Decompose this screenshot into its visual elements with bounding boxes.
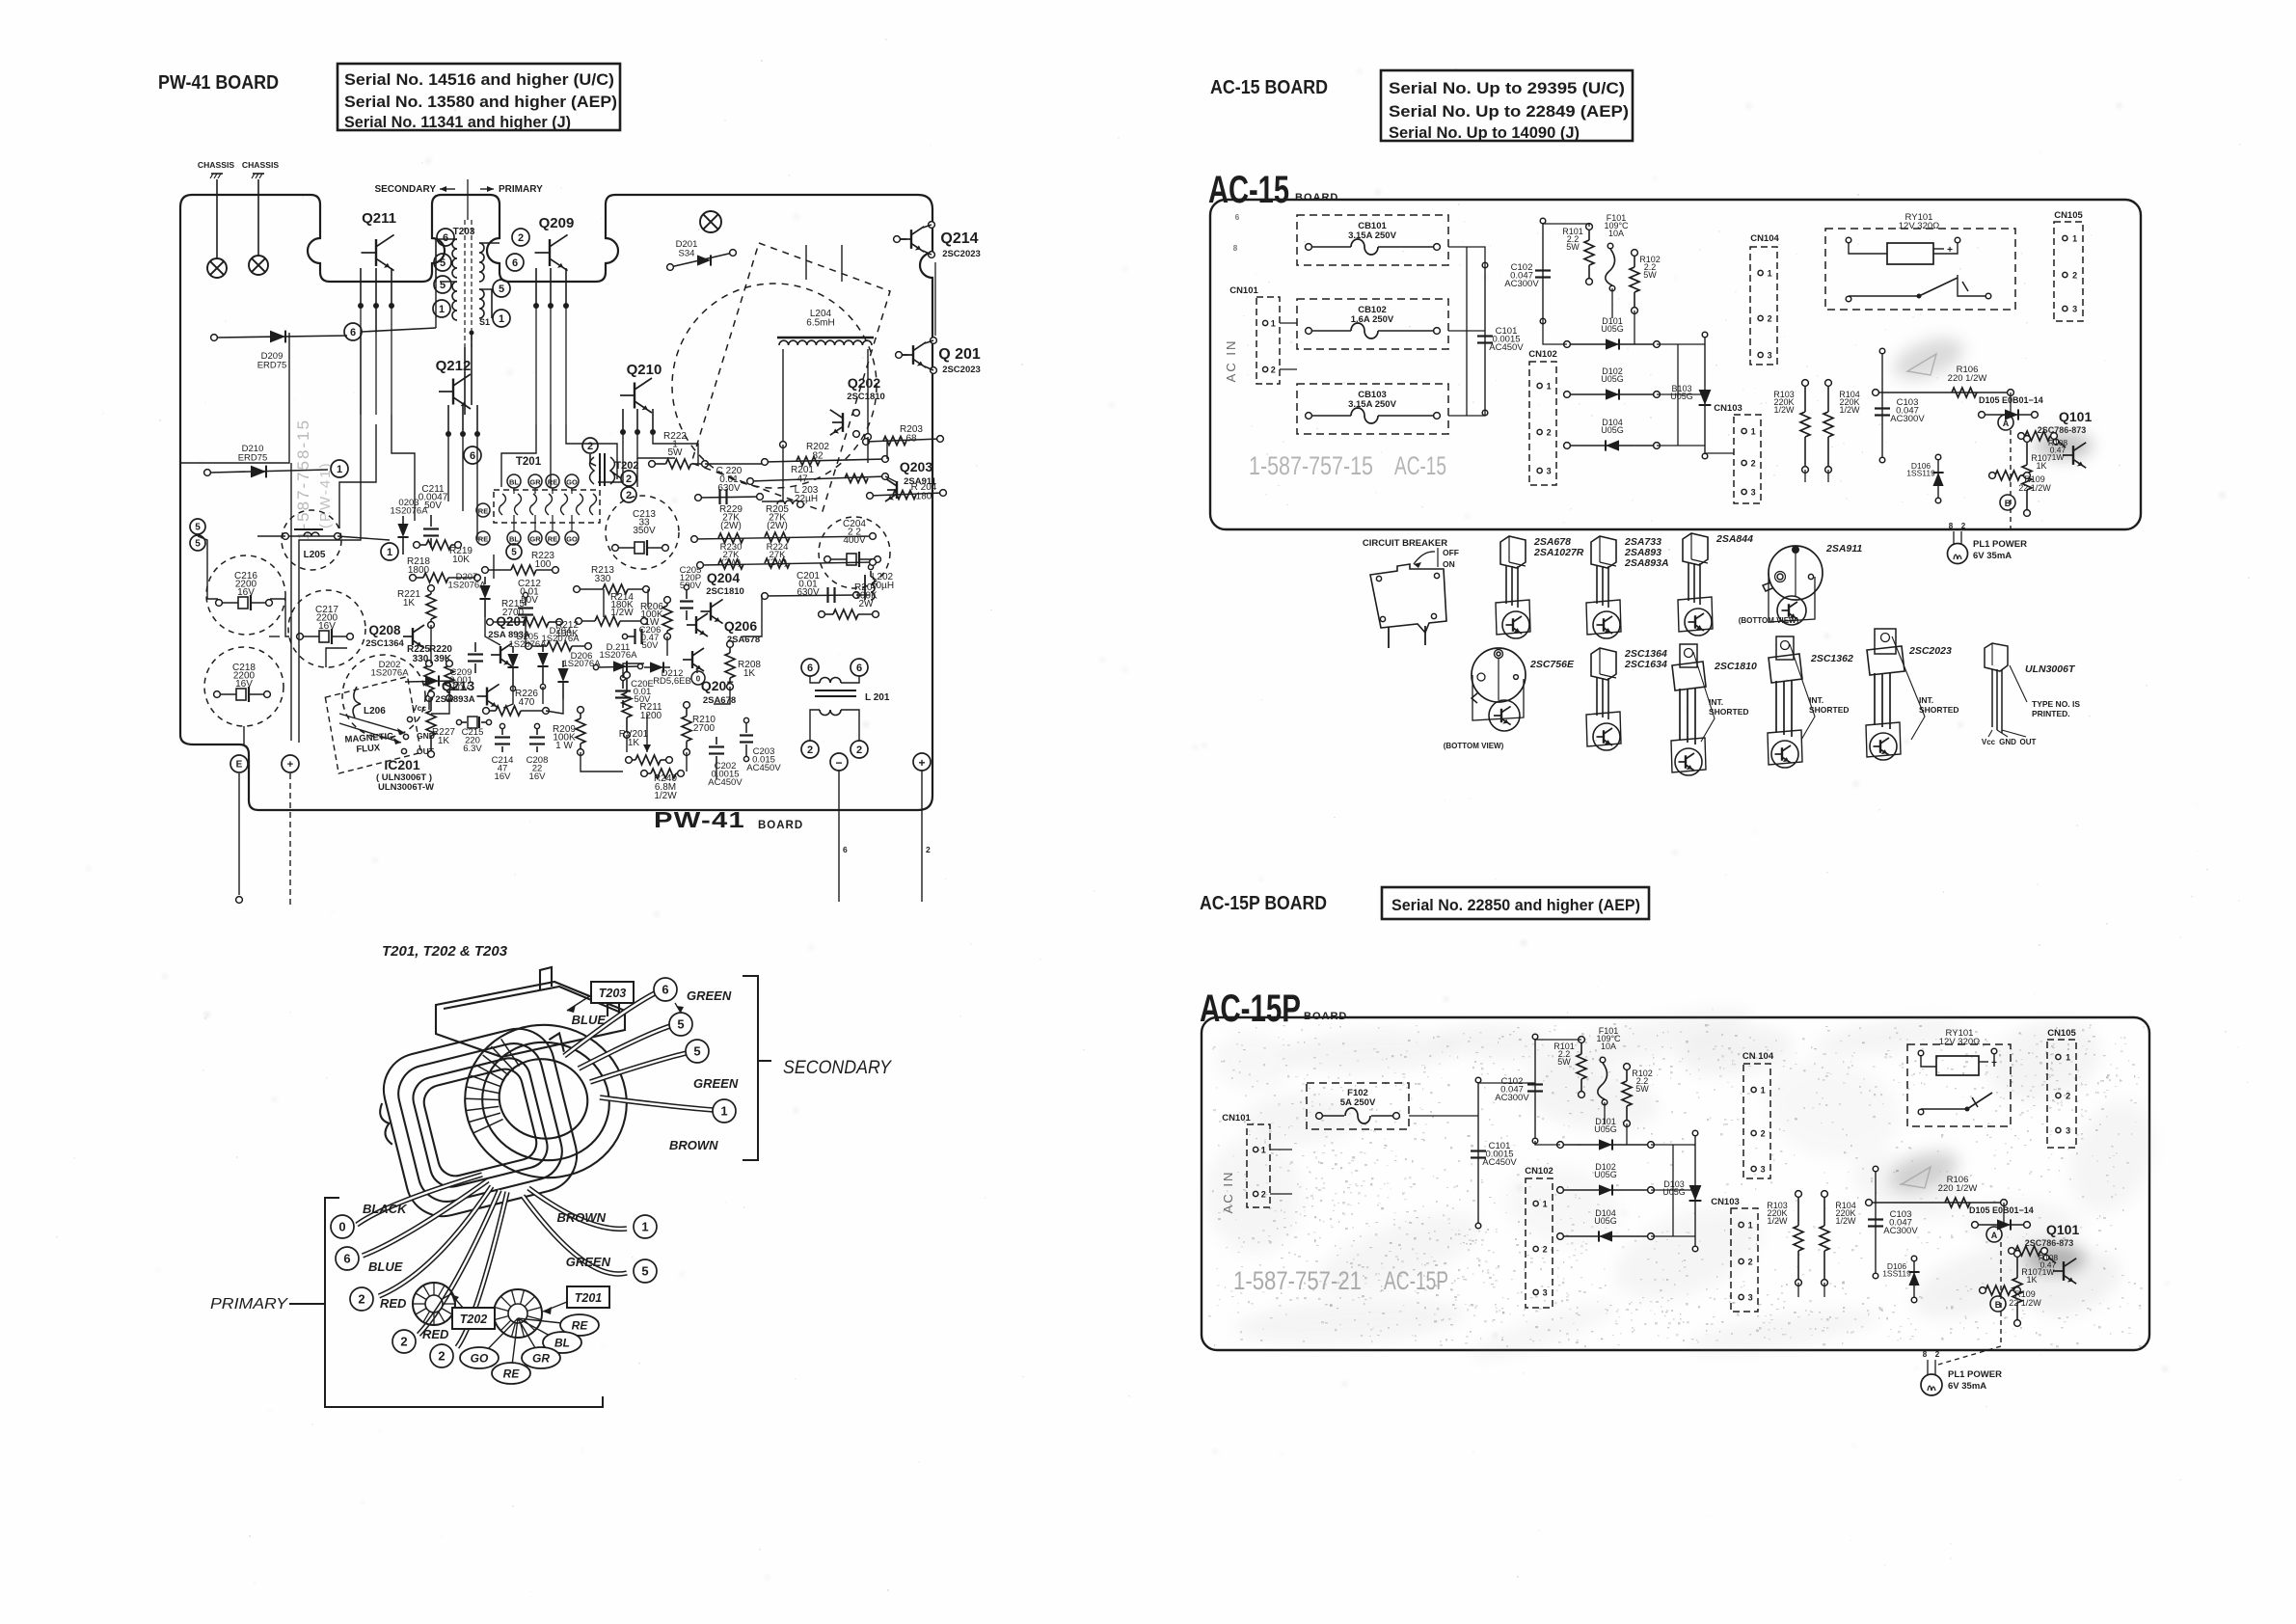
svg-text:22 1/2W: 22 1/2W (2018, 483, 2051, 493)
svg-text:CN101: CN101 (1222, 1113, 1251, 1123)
svg-text:1/2W: 1/2W (1767, 1216, 1788, 1226)
svg-text:CIRCUIT BREAKER: CIRCUIT BREAKER (1363, 538, 1447, 549)
svg-text:2: 2 (1748, 1258, 1753, 1267)
svg-text:1200: 1200 (640, 711, 662, 721)
svg-text:(BOTTOM VIEW): (BOTTOM VIEW) (1444, 742, 1504, 750)
svg-text:1K: 1K (2026, 1275, 2037, 1285)
svg-text:Serial No. 22850 and higher (A: Serial No. 22850 and higher (AEP) (1391, 897, 1640, 914)
svg-text:RE: RE (478, 507, 488, 516)
svg-text:T202: T202 (460, 1313, 488, 1326)
svg-text:1: 1 (1543, 1200, 1548, 1209)
svg-text:2SC756E: 2SC756E (1529, 659, 1575, 670)
svg-text:BOARD: BOARD (1295, 192, 1338, 203)
svg-text:1S2076A: 1S2076A (599, 650, 637, 661)
svg-text:CN103: CN103 (1714, 403, 1742, 414)
svg-text:Q203: Q203 (900, 459, 932, 474)
svg-text:(BOTTOM VIEW): (BOTTOM VIEW) (1739, 616, 1799, 625)
svg-text:GR: GR (532, 1352, 550, 1366)
svg-text:1: 1 (2072, 234, 2077, 244)
svg-text:PRIMARY: PRIMARY (499, 184, 543, 195)
svg-text:1 W: 1 W (555, 741, 573, 751)
svg-text:2: 2 (2066, 1092, 2070, 1101)
svg-text:12V 320Ω: 12V 320Ω (1899, 221, 1940, 231)
svg-text:AC450V: AC450V (1489, 342, 1524, 353)
svg-text:RD5,6EB: RD5,6EB (653, 676, 691, 687)
svg-text:1: 1 (720, 1104, 727, 1119)
svg-text:Vcc: Vcc (1982, 738, 1996, 746)
svg-text:CN105: CN105 (2047, 1028, 2076, 1039)
svg-text:AC IN: AC IN (1224, 339, 1238, 383)
svg-text:6: 6 (343, 1252, 350, 1266)
svg-text:CHASSIS: CHASSIS (198, 160, 234, 170)
svg-text:A: A (1991, 1231, 1998, 1240)
svg-text:6: 6 (843, 845, 848, 854)
svg-text:SECONDARY: SECONDARY (374, 184, 436, 195)
svg-text:OUT: OUT (2020, 738, 2037, 746)
svg-text:6: 6 (662, 983, 668, 997)
svg-text:ULN3006T-W: ULN3006T-W (378, 782, 434, 793)
svg-text:U05G: U05G (1601, 425, 1624, 435)
svg-text:2: 2 (518, 232, 524, 244)
svg-text:100: 100 (535, 559, 552, 570)
svg-text:2SA844: 2SA844 (1715, 533, 1753, 545)
svg-text:GO: GO (566, 535, 578, 544)
svg-text:SHORTED: SHORTED (1709, 707, 1749, 717)
svg-text:BL: BL (509, 478, 519, 487)
svg-text:T201: T201 (516, 456, 542, 468)
svg-text:A: A (2003, 419, 2010, 428)
svg-text:2: 2 (1935, 1350, 1940, 1359)
svg-text:6: 6 (1235, 213, 1240, 222)
svg-text:2: 2 (856, 744, 862, 756)
svg-text:5: 5 (677, 1017, 684, 1032)
svg-text:RE: RE (548, 535, 557, 544)
svg-text:Q101: Q101 (2046, 1222, 2079, 1237)
svg-text:RED: RED (422, 1327, 449, 1341)
svg-text:U05G: U05G (1594, 1216, 1617, 1226)
svg-text:B: B (1995, 1300, 2002, 1310)
svg-text:0: 0 (338, 1220, 345, 1234)
svg-text:350V: 350V (633, 526, 656, 536)
svg-text:AC450V: AC450V (746, 763, 781, 773)
svg-text:1: 1 (1761, 1086, 1766, 1096)
svg-text:PL1 POWER: PL1 POWER (1973, 539, 2027, 550)
svg-text:500V: 500V (680, 581, 702, 591)
svg-text:2SC2023: 2SC2023 (1908, 645, 1952, 657)
svg-text:T202: T202 (614, 460, 638, 472)
svg-text:0: 0 (696, 675, 701, 684)
svg-text:Q204: Q204 (707, 570, 740, 585)
svg-text:1: 1 (1751, 427, 1756, 437)
svg-text:2: 2 (587, 441, 593, 452)
svg-text:L206: L206 (364, 706, 386, 717)
svg-text:AC300V: AC300V (1890, 414, 1925, 424)
svg-text:FLUX: FLUX (356, 743, 381, 755)
svg-text:5: 5 (511, 548, 517, 558)
svg-text:Q207: Q207 (496, 614, 527, 629)
svg-text:1: 1 (1261, 1146, 1266, 1155)
svg-text:PRINTED.: PRINTED. (2032, 709, 2070, 718)
svg-text:5: 5 (641, 1264, 648, 1279)
svg-text:SECONDARY: SECONDARY (783, 1058, 892, 1078)
svg-text:Q 201: Q 201 (938, 346, 981, 363)
svg-text:1: 1 (337, 464, 342, 475)
svg-text:BLUE: BLUE (368, 1259, 403, 1274)
svg-text:TYPE NO. IS: TYPE NO. IS (2032, 699, 2080, 709)
svg-text:2SA893A: 2SA893A (1624, 557, 1669, 569)
svg-text:CN105: CN105 (2054, 210, 2083, 221)
svg-text:1: 1 (2066, 1053, 2070, 1063)
svg-text:2SC1810: 2SC1810 (706, 586, 744, 597)
svg-text:AC450V: AC450V (1482, 1157, 1517, 1168)
svg-text:RE: RE (548, 478, 557, 487)
svg-text:1S2076A: 1S2076A (370, 668, 409, 679)
svg-text:2: 2 (926, 845, 931, 854)
svg-text:630V: 630V (717, 483, 741, 494)
svg-text:U05G: U05G (1594, 1124, 1617, 1134)
svg-text:1: 1 (1271, 319, 1276, 329)
svg-text:BLACK: BLACK (363, 1202, 408, 1216)
svg-text:2: 2 (1761, 1129, 1766, 1139)
svg-text:1K: 1K (2036, 461, 2046, 471)
svg-text:RED: RED (380, 1296, 407, 1311)
svg-text:U05G: U05G (1670, 392, 1693, 401)
svg-text:2700: 2700 (693, 723, 716, 734)
svg-text:+: + (918, 756, 925, 770)
svg-text:U05G: U05G (1601, 324, 1624, 334)
svg-text:1K: 1K (743, 668, 756, 679)
svg-text:2: 2 (626, 474, 632, 485)
svg-text:3: 3 (1547, 467, 1552, 476)
svg-text:GO: GO (471, 1352, 489, 1366)
svg-text:3: 3 (1748, 1293, 1753, 1303)
svg-text:6V 35mA: 6V 35mA (1948, 1381, 1986, 1392)
svg-text:2SA1027R: 2SA1027R (1533, 547, 1584, 558)
svg-text:D105 E0B01−14: D105 E0B01−14 (1969, 1205, 2034, 1215)
svg-text:Serial No. 13580 and higher (A: Serial No. 13580 and higher (AEP) (344, 94, 617, 111)
svg-text:68: 68 (905, 434, 917, 445)
svg-text:T201: T201 (575, 1291, 603, 1305)
svg-text:6: 6 (512, 257, 518, 269)
svg-text:E: E (236, 760, 243, 771)
svg-text:S1: S1 (479, 317, 490, 327)
svg-text:1SS119: 1SS119 (1906, 469, 1935, 478)
svg-text:1K: 1K (438, 736, 450, 746)
svg-text:GND: GND (1999, 738, 2016, 746)
svg-text:PW-41 BOARD: PW-41 BOARD (158, 72, 279, 94)
svg-text:5: 5 (499, 284, 504, 295)
svg-text:1: 1 (1547, 382, 1552, 392)
svg-text:L 201: L 201 (865, 692, 890, 703)
svg-text:2: 2 (1768, 314, 1772, 324)
svg-text:−: − (835, 756, 842, 770)
svg-text:ULN3006T: ULN3006T (2025, 663, 2076, 675)
svg-text:8: 8 (1949, 522, 1954, 530)
svg-text:BOARD: BOARD (758, 820, 803, 831)
svg-text:Q206: Q206 (724, 618, 757, 634)
svg-text:2: 2 (1547, 428, 1552, 438)
svg-text:RE: RE (478, 535, 488, 544)
svg-text:Q210: Q210 (627, 362, 662, 378)
svg-text:Serial No. 11341 and higher (J: Serial No. 11341 and higher (J) (344, 114, 571, 131)
svg-text:6: 6 (856, 663, 862, 674)
svg-text:1-587-757-21: 1-587-757-21 (1233, 1266, 1362, 1295)
svg-text:Serial No. Up to 29395 (U/C): Serial No. Up to 29395 (U/C) (1389, 80, 1625, 97)
svg-text:1K: 1K (628, 738, 640, 748)
svg-text:AC-15P BOARD: AC-15P BOARD (1200, 893, 1327, 914)
svg-text:3: 3 (1761, 1165, 1766, 1175)
svg-text:U05G: U05G (1662, 1187, 1686, 1197)
svg-text:3: 3 (1768, 351, 1772, 361)
svg-text:Serial No. Up to 22849 (AEP): Serial No. Up to 22849 (AEP) (1389, 103, 1629, 121)
svg-text:2: 2 (807, 744, 813, 756)
svg-text:2: 2 (400, 1335, 407, 1349)
svg-text:2W: 2W (859, 599, 875, 609)
svg-text:1/2W: 1/2W (1839, 405, 1860, 415)
svg-text:AC-15P: AC-15P (1384, 1266, 1448, 1295)
svg-text:2: 2 (626, 490, 632, 501)
svg-text:CN101: CN101 (1229, 285, 1258, 296)
svg-text:3: 3 (2066, 1126, 2070, 1136)
svg-text:5W: 5W (1566, 242, 1580, 252)
svg-text:Q213: Q213 (442, 678, 474, 693)
svg-text:CN 104: CN 104 (1742, 1051, 1774, 1062)
svg-text:5: 5 (195, 539, 201, 550)
svg-text:(2W): (2W) (720, 521, 742, 531)
svg-text:6: 6 (443, 232, 448, 244)
svg-text:22 1/2W: 22 1/2W (2009, 1298, 2041, 1308)
svg-text:(2W): (2W) (767, 521, 788, 531)
svg-text:2SC1364: 2SC1364 (365, 638, 404, 649)
svg-text:U05G: U05G (1601, 374, 1624, 384)
svg-text:CN103: CN103 (1711, 1197, 1740, 1207)
svg-text:1-587-757-15: 1-587-757-15 (1249, 451, 1373, 480)
svg-text:1W: 1W (2052, 452, 2065, 462)
svg-text:10A: 10A (1601, 1042, 1616, 1051)
svg-text:GREEN: GREEN (687, 988, 732, 1003)
svg-text:SHORTED: SHORTED (1919, 705, 1959, 715)
svg-text:AC300V: AC300V (1495, 1093, 1529, 1103)
svg-text:INT.: INT. (1809, 695, 1823, 705)
svg-text:6.3V: 6.3V (463, 744, 482, 754)
svg-text:AC300V: AC300V (1504, 279, 1539, 289)
svg-text:CN102: CN102 (1525, 1166, 1553, 1177)
svg-text:1: 1 (1748, 1221, 1753, 1231)
svg-text:Q101: Q101 (2059, 409, 2092, 424)
svg-text:2SC1634: 2SC1634 (1624, 659, 1667, 670)
svg-text:470: 470 (519, 697, 535, 708)
svg-text:Q212: Q212 (436, 358, 472, 374)
svg-text:6V 35mA: 6V 35mA (1973, 551, 2012, 561)
svg-text:B: B (2005, 499, 2012, 508)
svg-text:GR: GR (529, 535, 541, 544)
svg-text:GREEN: GREEN (566, 1255, 611, 1269)
svg-text:6: 6 (807, 663, 813, 674)
svg-text:5W: 5W (1557, 1057, 1571, 1067)
svg-text:5: 5 (693, 1044, 700, 1059)
svg-text:330: 330 (595, 574, 611, 584)
svg-text:BL: BL (509, 535, 519, 544)
svg-text:AC IN: AC IN (1221, 1171, 1235, 1214)
svg-text:ERD75: ERD75 (238, 453, 268, 464)
svg-text:3: 3 (1543, 1288, 1548, 1298)
svg-text:6.5mH: 6.5mH (806, 318, 834, 329)
svg-text:RE: RE (572, 1319, 589, 1333)
svg-text:Serial No. Up to 14090 (J): Serial No. Up to 14090 (J) (1389, 124, 1580, 142)
svg-text:1/2W: 1/2W (1773, 405, 1795, 415)
svg-text:5W: 5W (1643, 270, 1657, 280)
svg-text:1: 1 (1768, 269, 1772, 279)
svg-text:2SA911: 2SA911 (1825, 543, 1862, 555)
svg-text:1/2W: 1/2W (654, 791, 677, 801)
svg-text:Q214: Q214 (940, 230, 978, 247)
svg-text:2SC2023: 2SC2023 (942, 249, 981, 259)
svg-text:2SA893A: 2SA893A (435, 694, 474, 705)
svg-text:5A 250V: 5A 250V (1340, 1097, 1376, 1108)
svg-text:1K: 1K (403, 598, 416, 609)
svg-text:1SS119: 1SS119 (1882, 1269, 1911, 1279)
svg-text:1: 1 (641, 1220, 648, 1234)
svg-text:5W: 5W (668, 447, 684, 458)
svg-text:5: 5 (195, 523, 201, 533)
svg-text:12V 320Ω: 12V 320Ω (1939, 1037, 1981, 1047)
svg-text:L205: L205 (304, 550, 326, 560)
svg-text:Q202: Q202 (848, 375, 880, 391)
svg-text:GO: GO (566, 478, 578, 487)
svg-text:ERD75: ERD75 (257, 361, 287, 371)
svg-text:2: 2 (1751, 459, 1756, 469)
svg-text:1: 1 (439, 304, 445, 315)
svg-text:AC300V: AC300V (1883, 1226, 1918, 1236)
svg-text:2: 2 (1543, 1245, 1548, 1255)
svg-text:AC-15: AC-15 (1208, 169, 1289, 211)
svg-text:INT.: INT. (1919, 695, 1933, 705)
svg-text:1S2076A: 1S2076A (541, 634, 580, 644)
svg-text:Q211: Q211 (362, 210, 396, 227)
svg-text:1: 1 (499, 313, 504, 325)
svg-text:+: + (287, 759, 293, 771)
svg-text:10K: 10K (452, 555, 470, 565)
svg-text:2SC1362: 2SC1362 (1810, 653, 1853, 664)
svg-text:GR: GR (529, 478, 541, 487)
svg-text:Serial No. 14516 and higher (U: Serial No. 14516 and higher (U/C) (344, 71, 614, 89)
svg-text:PW-41: PW-41 (654, 807, 745, 832)
svg-text:2SC1810: 2SC1810 (847, 392, 885, 402)
svg-text:2SC2023: 2SC2023 (942, 365, 981, 375)
svg-text:U05G: U05G (1594, 1170, 1617, 1179)
svg-text:AC-15P: AC-15P (1200, 988, 1301, 1030)
svg-text:IC201: IC201 (384, 757, 420, 772)
svg-text:T203: T203 (599, 987, 627, 1000)
svg-text:AC-15 BOARD: AC-15 BOARD (1210, 77, 1328, 98)
svg-text:8: 8 (1923, 1350, 1928, 1359)
svg-text:1: 1 (387, 547, 392, 558)
svg-text:16V: 16V (529, 771, 547, 782)
svg-text:AC450V: AC450V (708, 777, 743, 788)
svg-text:S34: S34 (679, 249, 695, 259)
svg-text:CHASSIS: CHASSIS (242, 160, 279, 170)
svg-text:10A: 10A (1608, 229, 1624, 238)
svg-text:T201, T202 & T203: T201, T202 & T203 (382, 943, 508, 960)
svg-text:GREEN: GREEN (693, 1076, 739, 1091)
svg-text:3: 3 (1751, 488, 1756, 498)
svg-text:Q209: Q209 (539, 215, 575, 231)
svg-text:OFF: OFF (1443, 548, 1459, 557)
svg-text:BLUE: BLUE (572, 1013, 607, 1027)
svg-text:BL: BL (554, 1337, 570, 1350)
svg-text:2: 2 (1261, 1190, 1266, 1200)
svg-text:PRIMARY: PRIMARY (210, 1296, 288, 1313)
svg-text:2: 2 (358, 1292, 365, 1307)
svg-text:RE: RE (503, 1367, 521, 1381)
svg-text:CN104: CN104 (1750, 233, 1779, 244)
svg-text:2: 2 (1271, 365, 1276, 375)
svg-text:50V: 50V (642, 640, 660, 651)
svg-text:1S2076A: 1S2076A (390, 506, 428, 517)
svg-text:1/2W: 1/2W (1835, 1216, 1856, 1226)
svg-text:3: 3 (2072, 305, 2077, 314)
svg-text:ON: ON (1443, 559, 1455, 569)
svg-text:2SC1810: 2SC1810 (1714, 661, 1757, 672)
svg-text:BROWN: BROWN (669, 1138, 718, 1152)
svg-text:16V: 16V (495, 771, 512, 782)
svg-text:8: 8 (1233, 244, 1238, 253)
svg-text:BROWN: BROWN (556, 1210, 606, 1225)
svg-text:2: 2 (1961, 522, 1966, 530)
svg-text:220 1/2W: 220 1/2W (1948, 373, 1987, 384)
svg-text:1W: 1W (2042, 1267, 2055, 1277)
svg-text:2: 2 (438, 1349, 445, 1364)
svg-text:1-587-758-15: 1-587-758-15 (294, 419, 312, 540)
svg-text:220 1/2W: 220 1/2W (1938, 1183, 1978, 1194)
svg-text:6: 6 (470, 450, 475, 462)
svg-text:PL1 POWER: PL1 POWER (1948, 1369, 2002, 1380)
svg-text:5: 5 (440, 257, 446, 269)
svg-text:Q208: Q208 (368, 623, 401, 637)
svg-text:5W: 5W (1635, 1084, 1649, 1094)
svg-text:SHORTED: SHORTED (1809, 705, 1850, 715)
svg-text:6: 6 (350, 327, 356, 338)
svg-text:Vcc: Vcc (412, 703, 426, 713)
